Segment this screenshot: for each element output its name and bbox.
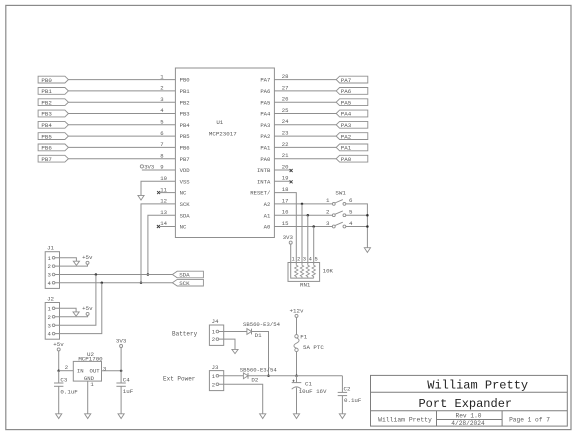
svg-text:3V3: 3V3 [144,163,154,170]
svg-text:4/28/2024: 4/28/2024 [451,420,485,427]
capacitor C3 0.1uF [54,371,78,414]
ground [138,195,144,200]
switch SW1 [326,190,353,228]
wire [346,214,368,216]
svg-text:+5v: +5v [82,254,93,261]
svg-text:PB0: PB0 [180,77,191,84]
svg-text:4: 4 [309,257,312,263]
net flag PA5 [336,99,368,107]
wire [68,113,175,115]
wire [248,375,342,377]
net flag PB7 [38,155,68,163]
svg-text:U1: U1 [216,119,223,126]
svg-text:15: 15 [282,220,289,227]
no-connect U1 pin 11 [157,191,175,194]
svg-text:SCK: SCK [179,280,190,287]
junction [120,369,123,372]
svg-text:PA0: PA0 [260,156,271,163]
title block [371,375,568,426]
svg-text:PB6: PB6 [180,145,190,152]
svg-text:10K: 10K [323,267,334,274]
wire [274,158,336,160]
wire [274,135,336,137]
svg-text:Rev 1.0: Rev 1.0 [456,412,482,419]
wire [274,124,336,126]
connector J3 [209,364,223,390]
svg-text:PB4: PB4 [41,122,52,129]
connector J1 [45,244,59,288]
svg-text:PA4: PA4 [341,111,352,118]
capacitor C1 10uF 16V [292,376,327,414]
wire [346,204,368,248]
wire [274,214,332,216]
net flag SCK [172,279,203,287]
net flag PB5 [38,133,68,141]
svg-text:PA2: PA2 [341,133,352,140]
svg-text:A1: A1 [264,212,271,219]
svg-text:PA5: PA5 [260,99,270,106]
fuse F1 5A PTC [294,334,324,352]
svg-text:PA7: PA7 [260,77,270,84]
wire [55,308,76,312]
svg-text:28: 28 [282,73,289,80]
wire [68,79,175,81]
wire [120,348,122,371]
svg-text:1: 1 [326,197,330,204]
wire [68,146,175,148]
svg-text:2: 2 [65,364,68,371]
svg-text:24: 24 [282,118,289,125]
svg-text:William Pretty: William Pretty [378,417,432,424]
svg-text:3: 3 [326,220,330,227]
ground [73,312,79,316]
ground [85,414,91,419]
svg-text:16: 16 [282,209,289,216]
ground [118,414,124,419]
svg-text:PA3: PA3 [341,122,352,129]
svg-text:Battery: Battery [172,331,198,338]
svg-text:SW1: SW1 [335,190,346,197]
wire [301,204,303,265]
wire [55,275,96,326]
svg-text:PA2: PA2 [260,133,270,140]
IC U1 MCP23017 [160,68,289,238]
svg-text:PB7: PB7 [41,156,52,163]
wire SDA [55,274,172,276]
junction [147,273,150,276]
svg-text:PA6: PA6 [260,88,270,95]
svg-text:21: 21 [282,152,289,159]
svg-text:SCK: SCK [180,201,191,208]
svg-text:PB1: PB1 [180,88,191,95]
power +5v [82,254,93,264]
junction [295,375,298,378]
svg-text:PA5: PA5 [341,99,352,106]
junction [57,369,60,372]
svg-text:PA0: PA0 [341,156,352,163]
ground [364,248,370,253]
svg-text:PB7: PB7 [180,156,190,163]
wire [55,264,88,266]
wire [307,215,309,264]
no-connect U1 pin 14 [157,225,176,228]
junction [307,214,310,217]
diode D2 SB560-E3/54 [240,366,278,383]
svg-text:Ext Power: Ext Power [163,375,196,382]
junction [101,281,104,284]
net flag SDA [172,271,203,279]
svg-text:3: 3 [48,272,51,279]
ground [232,349,238,353]
wire [219,331,247,333]
wire [274,226,332,228]
diode D1 SB560-E3/54 [243,321,281,339]
svg-text:J1: J1 [47,244,54,251]
svg-text:3: 3 [48,322,51,329]
resistor network RN1 10K [288,257,334,289]
ground [56,414,62,419]
wire SCK [55,282,172,284]
svg-text:18: 18 [282,186,289,193]
capacitor C4 1uF [116,371,133,414]
svg-text:0.1uF: 0.1uF [60,389,78,396]
svg-text:+5v: +5v [53,341,64,348]
svg-text:PA4: PA4 [260,111,271,118]
svg-text:RN1: RN1 [300,282,311,289]
junction [267,375,270,378]
svg-text:10uF 16V: 10uF 16V [299,388,327,395]
svg-text:PA3: PA3 [260,122,270,129]
svg-text:23: 23 [282,130,289,137]
wire [296,317,298,334]
svg-text:3: 3 [303,257,306,263]
wire [68,90,175,92]
svg-text:PB5: PB5 [180,133,190,140]
net flag PA2 [336,133,368,141]
wire [252,332,269,376]
svg-text:2: 2 [48,263,51,270]
svg-text:PB5: PB5 [41,133,52,140]
wire [102,370,122,372]
capacitor C2 0.1uF [338,376,362,414]
wire SCK [141,204,175,283]
svg-text:1: 1 [291,257,294,263]
wire SDA [148,215,176,274]
wire RESET to RN1 pin 2 [274,193,296,265]
wire [274,203,332,205]
wire [142,169,176,171]
svg-text:C4: C4 [123,377,130,384]
wire [87,381,89,414]
net flag PB2 [38,99,68,107]
svg-text:Port Expander: Port Expander [418,397,512,411]
svg-text:PB6: PB6 [41,145,52,152]
svg-text:RESET/: RESET/ [250,190,271,197]
junction [301,203,304,206]
svg-text:3V3: 3V3 [283,234,294,241]
svg-text:INTA: INTA [257,178,271,185]
svg-text:William Pretty: William Pretty [427,379,528,393]
svg-text:J4: J4 [212,318,219,325]
net flag PB1 [38,88,68,96]
svg-text:D1: D1 [255,332,262,339]
svg-text:26: 26 [282,96,289,103]
svg-text:OUT: OUT [90,368,101,375]
net flag PB4 [38,121,68,129]
power +12v [290,307,304,317]
power 3V3 [140,163,154,170]
svg-text:PA1: PA1 [260,145,271,152]
wire [274,79,336,81]
svg-text:J2: J2 [47,295,54,302]
net flag PA1 [336,144,368,152]
net flag PA3 [336,121,368,129]
ground [339,414,345,419]
power 3V3 [116,337,127,347]
svg-text:PB0: PB0 [41,77,52,84]
power +5v [82,305,93,315]
svg-text:VDD: VDD [180,167,191,174]
wire [219,339,235,349]
no-connect U1 pin 20 [274,169,292,172]
net flag PA6 [336,88,368,96]
wire [274,90,336,92]
svg-text:5A PTC: 5A PTC [303,344,324,351]
svg-text:C1: C1 [305,380,312,387]
svg-text:F1: F1 [300,334,307,341]
wire [290,244,292,262]
regulator U2 MCP1700 [65,351,107,388]
svg-text:C3: C3 [60,377,67,384]
svg-text:PA7: PA7 [341,77,352,84]
svg-text:5: 5 [349,209,353,216]
power +5v [53,341,64,351]
svg-text:20: 20 [282,163,289,170]
power 3V3 [283,234,294,244]
junction [95,273,98,276]
svg-text:2: 2 [326,209,330,216]
svg-text:17: 17 [282,197,289,204]
svg-text:22: 22 [282,141,289,148]
net flag PA4 [336,110,368,118]
svg-text:VSS: VSS [180,178,191,185]
svg-text:2: 2 [212,381,215,388]
wire [68,135,175,137]
svg-text:C2: C2 [344,385,351,392]
ground [293,414,299,419]
svg-text:3: 3 [103,366,106,373]
svg-text:A2: A2 [264,201,271,208]
svg-text:19: 19 [282,175,289,182]
svg-text:Page 1 of 7: Page 1 of 7 [509,417,550,424]
connector J2 [45,295,59,339]
svg-text:INTB: INTB [257,167,271,174]
wire [58,351,60,371]
svg-text:PB1: PB1 [41,88,52,95]
ground [260,414,266,419]
net flag PA0 [336,155,368,163]
svg-text:D2: D2 [251,377,258,384]
svg-text:PB3: PB3 [180,111,190,118]
wire [346,226,368,228]
wire [274,113,336,115]
svg-text:PB2: PB2 [41,99,52,106]
svg-text:+12v: +12v [290,307,304,314]
svg-text:6: 6 [349,197,353,204]
svg-text:2: 2 [48,314,51,321]
wire [59,370,74,372]
svg-text:2: 2 [297,257,300,263]
wire [296,352,298,376]
wire [68,101,175,103]
svg-text:NC: NC [180,190,187,197]
svg-text:PB3: PB3 [41,111,52,118]
svg-text:2: 2 [212,336,215,343]
wire [274,101,336,103]
wire [55,283,102,334]
wire [141,181,175,195]
svg-text:0.1uF: 0.1uF [344,397,362,404]
wire [274,146,336,148]
net flag PB0 [38,76,68,84]
wire [68,124,175,126]
svg-text:25: 25 [282,107,289,114]
wire [219,375,244,377]
wire [313,227,315,265]
svg-text:SDA: SDA [179,272,190,279]
connector J4 [209,318,223,345]
junction [366,225,369,228]
junction [366,214,369,217]
svg-text:27: 27 [282,84,289,91]
svg-text:IN: IN [77,368,84,375]
svg-text:+5v: +5v [82,305,93,312]
svg-text:1uF: 1uF [123,388,134,395]
no-connect U1 pin 19 [274,180,292,183]
net flag PA7 [336,76,368,84]
svg-text:MCP23017: MCP23017 [209,131,237,138]
wire [55,258,77,262]
wire [55,315,88,316]
svg-text:SB560-E3/54: SB560-E3/54 [243,321,281,328]
svg-text:PB4: PB4 [180,122,191,129]
svg-text:SDA: SDA [180,212,191,219]
net flag PB3 [38,110,68,118]
svg-text:PA1: PA1 [341,145,352,152]
svg-text:3V3: 3V3 [116,337,127,344]
svg-text:PB2: PB2 [180,99,190,106]
svg-text:PA6: PA6 [341,88,352,95]
svg-text:SB560-E3/54: SB560-E3/54 [240,366,278,373]
svg-text:NC: NC [180,224,187,231]
wire [68,158,175,160]
net flag PB6 [38,144,68,152]
junction [312,225,315,228]
ground [73,261,79,265]
junction [140,281,143,284]
svg-text:A0: A0 [264,224,271,231]
svg-text:4: 4 [349,220,353,227]
svg-text:5: 5 [314,257,317,263]
wire [219,384,263,414]
